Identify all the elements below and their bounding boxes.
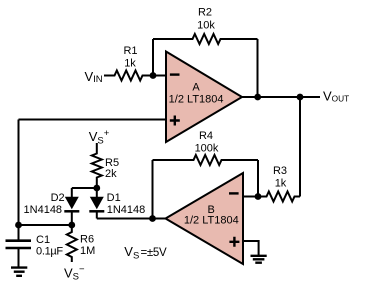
wire D1 anode stub xyxy=(96,188,98,197)
wire A output to VOUT xyxy=(242,96,320,98)
svg-text:VS+: VS+ xyxy=(89,128,110,146)
resistor R2 zigzag and top feedback wire xyxy=(153,34,258,44)
svg-text:VS−: VS− xyxy=(64,264,85,282)
svg-text:10k: 10k xyxy=(197,20,215,32)
svg-text:0.1µF: 0.1µF xyxy=(36,246,63,258)
svg-text:R1: R1 xyxy=(123,45,137,57)
wire feedback down to output xyxy=(257,39,259,97)
wire B+ input to ground xyxy=(243,241,259,255)
wire junction A- up to feedback xyxy=(152,39,154,76)
junction node R5/diodes xyxy=(93,185,100,192)
svg-text:VOUT: VOUT xyxy=(323,88,349,103)
wire D1 cathode stub xyxy=(96,211,98,218)
svg-text:1N4148: 1N4148 xyxy=(107,204,146,216)
svg-text:R3: R3 xyxy=(273,165,287,177)
resistor R6 zigzag to VS- xyxy=(67,225,77,262)
wire VOUT node down to R3 xyxy=(299,97,301,197)
svg-text:D2: D2 xyxy=(51,192,65,204)
svg-text:VIN: VIN xyxy=(85,69,103,85)
capacitor C1 xyxy=(18,225,20,240)
wire B- input xyxy=(243,196,258,198)
wire R5 bottom to D2 anode xyxy=(72,187,97,189)
svg-text:2k: 2k xyxy=(105,168,117,180)
junction node VOUT branch xyxy=(297,94,304,101)
wire D2 anode stub xyxy=(71,188,73,197)
wire left rail vertical xyxy=(18,120,20,226)
op-amp A minus sign xyxy=(170,73,180,75)
diode D2 (1N4148) xyxy=(65,197,79,209)
wire A+ input from left rail xyxy=(19,119,167,121)
ground below C1 xyxy=(11,266,27,268)
wire D2 cathode to bottom rail xyxy=(71,211,73,225)
op-amp A plus sign xyxy=(170,116,180,126)
ground at B+ xyxy=(251,255,267,257)
op-amp B body xyxy=(166,173,244,264)
wire R4 left down to B output xyxy=(152,160,154,219)
svg-text:R2: R2 xyxy=(198,7,212,19)
svg-text:D1: D1 xyxy=(107,192,121,204)
junction node B output xyxy=(149,215,156,222)
resistor R4 zigzag and wire xyxy=(153,155,259,165)
wire bottom rail xyxy=(19,224,72,226)
svg-text:1k: 1k xyxy=(124,58,136,70)
svg-text:A: A xyxy=(192,82,200,94)
junction node A output / feedback xyxy=(254,94,261,101)
svg-text:1k: 1k xyxy=(275,178,287,190)
op-amp B minus sign xyxy=(229,192,239,194)
wire B- node up to R4 xyxy=(257,160,259,197)
svg-text:100k: 100k xyxy=(195,143,219,155)
svg-text:R6: R6 xyxy=(80,233,94,245)
wire D1 cathode to B output node xyxy=(97,218,153,220)
junction node C1/left rail xyxy=(15,222,22,229)
op-amp B plus sign xyxy=(229,237,239,247)
resistor R5 zigzag from VS+ xyxy=(92,143,102,188)
junction node B- input xyxy=(255,193,262,200)
svg-text:R4: R4 xyxy=(199,130,213,142)
junction node A- input xyxy=(150,72,157,79)
wire B output apex xyxy=(153,218,167,220)
wire VIN lead and resistor R1 zigzag xyxy=(104,71,166,81)
op-amp A body xyxy=(166,52,242,143)
diode D1 (1N4148) xyxy=(90,197,104,209)
svg-text:C1: C1 xyxy=(36,234,50,246)
svg-text:1M: 1M xyxy=(80,245,95,257)
svg-text:=±5V: =±5V xyxy=(141,247,168,259)
svg-text:1/2 LT1804: 1/2 LT1804 xyxy=(184,215,239,227)
svg-text:1N4148: 1N4148 xyxy=(24,204,63,216)
svg-text:1/2 LT1804: 1/2 LT1804 xyxy=(169,94,224,106)
svg-text:VS: VS xyxy=(124,244,139,261)
resistor R3 zigzag and wire xyxy=(258,192,300,202)
junction node D2/R6 xyxy=(68,222,75,229)
